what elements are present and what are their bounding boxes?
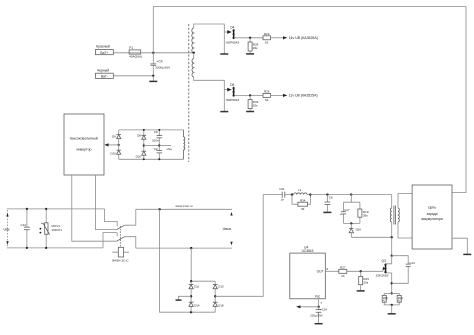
diode D4	[224, 25, 239, 44]
wire top rail throw stub	[104, 209, 117, 226]
relay K1 contact 1	[117, 225, 125, 229]
svg-text:С12: С12	[20, 223, 26, 227]
svg-text:39: 39	[301, 207, 305, 211]
wire BaT+ to F1	[113, 52, 129, 54]
wire Q3 drain	[391, 256, 393, 264]
svg-text:ОЕР6043: ОЕР6043	[226, 98, 240, 102]
ground under R33	[246, 111, 254, 113]
diode D5	[224, 83, 239, 102]
node bridge mid right	[214, 295, 216, 297]
ground bridge	[176, 299, 182, 301]
node bridge mid left	[190, 295, 192, 297]
svg-text:+С4: +С4	[157, 59, 163, 63]
svg-text:R27: R27	[340, 265, 346, 269]
wire sense to ground	[391, 305, 393, 313]
svg-text:10D471: 10D471	[52, 228, 63, 232]
node BaT- junction	[152, 75, 154, 77]
wire stub net label	[159, 145, 171, 147]
transformer T2 winding left	[390, 195, 391, 238]
capacitor C8	[152, 130, 162, 146]
svg-text:D5: D5	[230, 83, 234, 87]
svg-text:С2: С2	[154, 147, 158, 151]
terminal Uвых	[223, 212, 233, 245]
node D8 D16 mid	[143, 144, 145, 146]
node MOV1 bottom	[45, 247, 47, 249]
svg-text:Черный: Черный	[97, 68, 109, 72]
svg-text:С13: С13	[409, 261, 415, 265]
wire Q5 to ground	[223, 90, 225, 112]
transistor Q3	[376, 259, 392, 277]
svg-text:D4: D4	[230, 25, 234, 29]
wire bridge output to C21	[215, 195, 282, 297]
svg-text:D20: D20	[356, 228, 362, 232]
wire F1 to center tap	[141, 52, 194, 54]
diode D10	[110, 145, 121, 159]
wire C17 branch bottom	[344, 222, 360, 224]
node C12 bottom	[26, 247, 28, 249]
node D8 top	[143, 129, 145, 131]
pin 7 Vcc	[319, 299, 323, 307]
wire D4 output rail	[234, 37, 263, 39]
wire BaT- to ground node	[113, 75, 153, 77]
diode D15	[213, 281, 224, 296]
node T2 primary bottom	[391, 236, 393, 238]
svg-text:С17: С17	[344, 208, 350, 212]
capacitor C4	[150, 53, 171, 76]
ground under C6	[323, 211, 331, 213]
transformer T1 winding 1	[192, 28, 194, 53]
node MOV1 top	[45, 208, 47, 210]
wire contact1 fixed to top out rail	[125, 209, 136, 225]
terminal BaT+	[96, 50, 114, 55]
svg-text:UС3843: UС3843	[302, 249, 314, 253]
diode D8	[137, 130, 146, 146]
svg-text:40А(50А): 40А(50А)	[129, 55, 142, 59]
svg-text:62: 62	[265, 98, 269, 102]
svg-text:+С24: +С24	[320, 307, 327, 311]
node +12V junction	[152, 52, 154, 54]
svg-text:D10: D10	[110, 152, 116, 156]
node Q3 drain	[391, 255, 393, 257]
node Q3 source C13	[391, 282, 393, 284]
varistor MOV1	[40, 209, 63, 248]
ground under R29	[357, 290, 365, 292]
svg-text:Uвх: Uвх	[4, 227, 10, 231]
wire Uвх top rail	[7, 208, 105, 210]
capacitor C21	[279, 187, 292, 202]
resistor R27	[339, 265, 347, 278]
wire inverter right leg to relay	[96, 175, 117, 230]
svg-text:L1: L1	[298, 188, 302, 192]
svg-text:R26: R26	[264, 89, 270, 93]
svg-text:R23: R23	[264, 32, 270, 36]
svg-text:20к: 20к	[363, 280, 368, 284]
wire bottom rail throw stub	[103, 233, 117, 248]
node D5 output	[249, 94, 251, 96]
node C17 top	[350, 193, 352, 195]
ground under C4	[149, 76, 157, 82]
relay K1 coil	[112, 247, 129, 262]
svg-text:1н: 1н	[281, 198, 285, 202]
wire R27 to gate	[347, 270, 383, 272]
ground under Q4	[220, 53, 228, 55]
svg-text:D14: D14	[194, 304, 200, 308]
wire relay bottom output rail	[136, 247, 232, 249]
svg-text:36к: 36к	[363, 213, 368, 217]
svg-text:4.7: 4.7	[398, 299, 402, 303]
transformer T1 core	[188, 24, 190, 162]
node C12 top	[26, 208, 28, 210]
block Высоковольтный инвертор	[64, 114, 104, 175]
svg-text:ОЕР6043: ОЕР6043	[226, 41, 240, 45]
node D16 bottom	[143, 158, 145, 160]
node C8 top	[158, 129, 160, 131]
svg-text:D18: D18	[218, 304, 224, 308]
wire D20 to transformer bottom	[351, 236, 391, 238]
node bridge bottom left	[190, 311, 192, 313]
resistor R33	[248, 95, 259, 111]
svg-text:D9: D9	[112, 134, 116, 138]
node top rail to bridge	[158, 208, 160, 210]
node output arrow 14v	[283, 36, 287, 39]
wire C17 branch top	[344, 195, 360, 203]
capacitor C12	[20, 209, 29, 248]
node R29 top	[360, 270, 362, 272]
node C2 bottom	[158, 158, 160, 160]
diode D20	[349, 223, 361, 237]
capacitor C6	[325, 195, 333, 212]
wire C6 node to transformer	[351, 194, 391, 196]
node Vcc arrow	[296, 305, 300, 308]
node arrow into inverter	[104, 143, 108, 146]
svg-text:В4SН-2С-С: В4SН-2С-С	[112, 258, 129, 262]
wire bridge top rail	[191, 280, 215, 282]
wire rectifier bottom rail	[119, 158, 184, 160]
resistor R31	[392, 293, 404, 305]
ground under sense	[388, 313, 396, 315]
wire top rail down to bridge bottom	[160, 209, 192, 312]
wire Vcc arrow	[300, 306, 319, 308]
svg-text:D8: D8	[137, 133, 141, 137]
node sense bottom	[391, 304, 393, 306]
transformer T2 core	[394, 206, 396, 225]
wire Q3 source	[391, 273, 393, 294]
svg-text:аккумулятора: аккумулятора	[421, 217, 443, 221]
wire bridge bottom rail	[191, 311, 215, 313]
svg-text:Высоковольтный: Высоковольтный	[70, 137, 97, 141]
wire winding2 bottom arm to Q5	[194, 77, 225, 90]
wire +12V riser, top rail, right drop	[153, 7, 466, 193]
diode D18	[213, 296, 224, 312]
svg-text:11v UB (КА3525А): 11v UB (КА3525А)	[289, 94, 318, 98]
svg-text:D11: D11	[194, 285, 199, 289]
diode D14	[189, 296, 200, 312]
node C6 top	[326, 193, 328, 195]
resistor R28	[248, 38, 259, 54]
svg-text:С8: С8	[154, 130, 158, 134]
chip U4 UC3843	[290, 246, 326, 299]
ground under C24	[315, 323, 323, 325]
svg-text:Красный: Красный	[96, 45, 110, 49]
wire Q4 to ground	[223, 32, 225, 54]
diode D9	[112, 130, 121, 145]
wire winding1 top arm to Q4	[194, 24, 225, 32]
svg-text:10: 10	[341, 274, 345, 278]
wire relay top output rail	[136, 208, 232, 210]
svg-text:220μ/25V: 220μ/25V	[310, 314, 323, 318]
wire R26 to output arrow	[271, 94, 284, 96]
wire inverter left leg to relay	[72, 175, 117, 241]
svg-text:62: 62	[265, 40, 269, 44]
svg-text:20к: 20к	[253, 46, 258, 50]
wire charge box bottom right	[452, 238, 467, 254]
node Vcc junction	[317, 306, 319, 308]
wire bottom rail down to bridge top	[190, 248, 192, 281]
node bridge top left	[190, 280, 192, 282]
svg-text:2SK2603: 2SK2603	[376, 274, 389, 278]
fuse F1	[129, 46, 142, 59]
node bottom rail to bridge	[190, 247, 192, 249]
svg-text:20к: 20к	[253, 104, 258, 108]
transformer T1 winding 3	[184, 130, 185, 159]
ground charge box	[463, 253, 471, 255]
svg-text:Q3: Q3	[382, 259, 386, 263]
ground under R28	[246, 53, 254, 55]
ground under Q5	[220, 111, 228, 113]
svg-text:100н: 100н	[152, 139, 159, 143]
wire arrow stub to D9 column	[109, 144, 119, 146]
node D4 output	[249, 37, 251, 39]
capacitor C13	[392, 256, 415, 284]
wire D5 output rail	[234, 94, 263, 96]
resistor R30	[382, 293, 392, 305]
wire mid row to C8 column	[144, 145, 160, 147]
svg-text:общ: общ	[167, 147, 173, 151]
svg-text:ВаТ-: ВаТ-	[101, 75, 108, 79]
svg-text:R34: R34	[300, 198, 306, 202]
svg-text:инвертор: инвертор	[77, 147, 92, 151]
node center tap	[193, 52, 195, 54]
svg-text:С6: С6	[329, 195, 333, 199]
wire Uвх bottom rail	[7, 247, 103, 249]
resistor R23	[263, 32, 271, 45]
capacitor C2	[154, 146, 162, 160]
pin 6 OUT	[325, 267, 339, 271]
node D9 D10 mid	[118, 144, 120, 146]
node L1 right	[309, 193, 311, 195]
svg-text:D16: D16	[136, 155, 142, 159]
terminal Uвх	[4, 210, 10, 247]
resistor R34	[292, 195, 310, 211]
relay K1 contact 2	[117, 237, 125, 242]
capacitor C24	[310, 307, 327, 323]
svg-text:2200μ/16V: 2200μ/16V	[155, 66, 171, 70]
svg-text:14v UB (КА3525А): 14v UB (КА3525А)	[289, 36, 318, 40]
resistor R26	[263, 89, 271, 102]
wire T2 bottom to Q3 drain	[391, 237, 393, 255]
terminal BaT-	[96, 73, 114, 78]
node C8 C2 mid	[158, 144, 160, 146]
svg-text:F1: F1	[129, 46, 133, 50]
svg-text:www.zmei.ru: www.zmei.ru	[175, 204, 192, 208]
svg-text:заряда: заряда	[427, 212, 438, 216]
svg-text:ВаТ+: ВаТ+	[100, 51, 108, 55]
svg-text:Uвых: Uвых	[223, 227, 232, 231]
svg-text:Цепь: Цепь	[428, 206, 436, 210]
svg-text:+: +	[340, 212, 342, 216]
resistor R29	[359, 271, 370, 290]
block Цепь заряда аккумулятора	[412, 185, 452, 249]
resistor R19	[358, 202, 369, 223]
node L1 left	[291, 193, 293, 195]
svg-text:D15: D15	[218, 285, 224, 289]
node sense top	[391, 292, 393, 294]
transformer T2 winding right	[398, 194, 412, 239]
svg-text:OUT: OUT	[317, 269, 324, 273]
wire rectifier top rail	[119, 129, 184, 131]
wire contact2 fixed to bottom out rail	[125, 237, 136, 248]
wire bridge mid left to ground	[179, 296, 192, 299]
node output arrow 11v	[283, 94, 287, 97]
transformer T1 winding 2	[193, 53, 195, 59]
capacitor C17	[340, 202, 350, 223]
diode D11	[189, 281, 200, 296]
wire R23 to output arrow	[271, 37, 284, 39]
svg-text:Vcc: Vcc	[315, 295, 321, 299]
node D20 top	[350, 222, 352, 224]
diode D16	[136, 146, 147, 160]
svg-text:4.7: 4.7	[383, 299, 387, 303]
relay K1 link	[119, 226, 121, 247]
svg-text:С21: С21	[279, 187, 285, 191]
wire L1 to C6 node	[310, 194, 351, 196]
inductor L1	[294, 188, 311, 194]
